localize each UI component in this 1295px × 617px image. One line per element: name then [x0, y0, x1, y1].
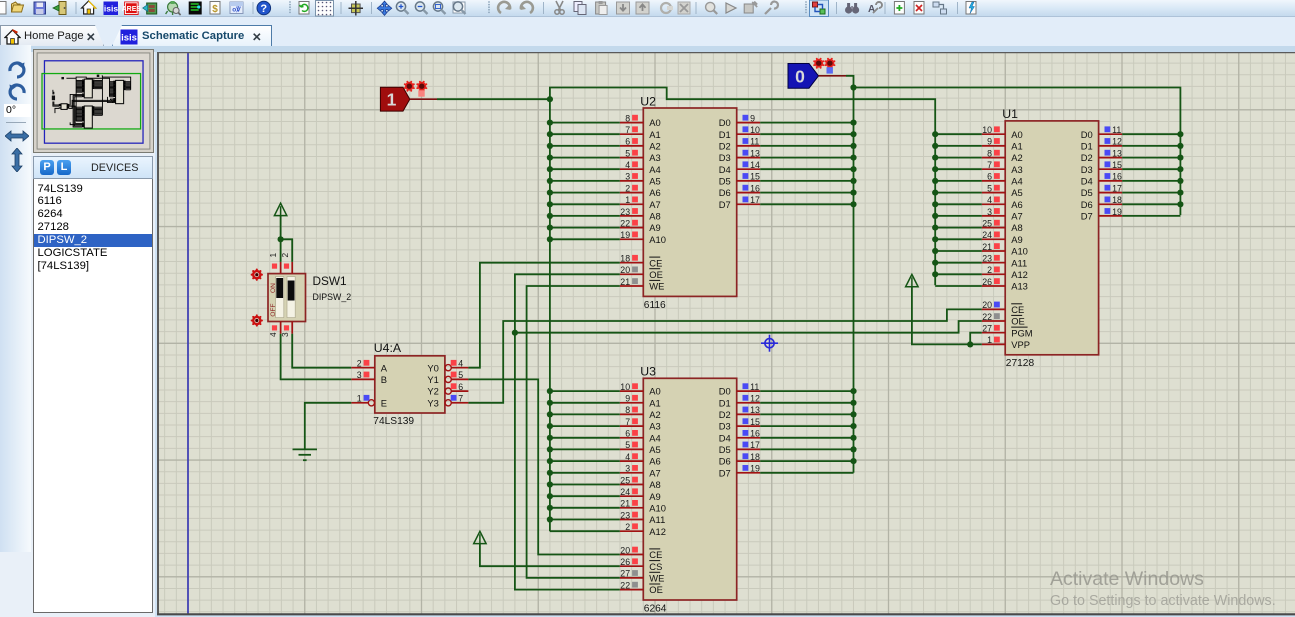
svg-text:D0: D0 — [719, 386, 731, 397]
svg-text:1: 1 — [625, 195, 630, 205]
svg-text:11: 11 — [1112, 125, 1121, 135]
svg-text:D3: D3 — [719, 421, 731, 432]
dip switch DSW1 (DIPSW_2) — [268, 253, 351, 338]
svg-text:D7: D7 — [1081, 211, 1093, 222]
wire U1 D6 — [1122, 203, 1180, 205]
wire U2 A6 — [550, 192, 620, 194]
svg-text:6264: 6264 — [644, 603, 667, 614]
junctions on U1 data bus — [1177, 131, 1183, 207]
junctions on U2/U3 address bus — [547, 120, 553, 523]
svg-text:2: 2 — [357, 359, 362, 369]
svg-text:A0: A0 — [649, 117, 660, 128]
wire U2-U3 data bus (vertical) — [853, 88, 855, 473]
svg-text:3: 3 — [625, 464, 630, 474]
watermark text — [1050, 568, 1276, 609]
svg-text:19: 19 — [750, 464, 760, 474]
wire U2 A0 — [550, 122, 620, 124]
svg-text:20: 20 — [620, 545, 630, 555]
wire U2 D1 — [760, 133, 853, 135]
svg-text:D7: D7 — [719, 467, 731, 478]
wire U4 Y1 to U3 CE — [468, 379, 619, 554]
svg-text:11: 11 — [750, 382, 759, 392]
wire U3 A6 — [550, 460, 620, 462]
svg-text:16: 16 — [1112, 172, 1122, 182]
svg-text:U2: U2 — [640, 94, 656, 108]
svg-text:A8: A8 — [649, 211, 660, 222]
ground symbol — [293, 449, 318, 460]
svg-text:4: 4 — [268, 332, 278, 337]
svg-text:E: E — [381, 397, 387, 408]
wire U1 D3 — [1122, 168, 1180, 170]
svg-text:WE: WE — [649, 573, 664, 584]
svg-text:13: 13 — [750, 148, 760, 158]
svg-text:2: 2 — [625, 522, 630, 532]
svg-text:VPP: VPP — [1011, 339, 1030, 350]
wire U1 A10 — [935, 250, 982, 252]
wire U4 E to ground — [305, 403, 352, 450]
svg-text:13: 13 — [750, 405, 760, 415]
svg-text:A3: A3 — [649, 421, 660, 432]
svg-text:A3: A3 — [649, 152, 660, 163]
wire U3 A12 — [550, 530, 620, 532]
wire U3 A9 — [550, 495, 620, 497]
wire U1 A9 — [935, 238, 982, 240]
svg-text:D0: D0 — [1081, 129, 1093, 140]
svg-text:25: 25 — [620, 475, 630, 485]
toggle buttons of logic state 1 — [404, 81, 428, 97]
wire U2 WE to U3 WE — [527, 286, 620, 578]
wire U2 A3 — [550, 157, 620, 159]
svg-text:U1: U1 — [1002, 107, 1018, 121]
svg-text:A5: A5 — [649, 444, 660, 455]
svg-text:10: 10 — [982, 125, 992, 135]
svg-text:4: 4 — [987, 195, 992, 205]
svg-text:20: 20 — [982, 300, 992, 310]
svg-text:27: 27 — [620, 569, 630, 579]
svg-text:15: 15 — [750, 172, 760, 182]
wire U2 A2 — [550, 145, 620, 147]
svg-text:12: 12 — [1112, 137, 1122, 147]
svg-text:5: 5 — [458, 370, 463, 380]
wire U3 D0 — [760, 390, 853, 392]
svg-text:A4: A4 — [1011, 176, 1022, 187]
svg-text:D1: D1 — [719, 129, 731, 140]
svg-text:D3: D3 — [719, 152, 731, 163]
svg-text:8: 8 — [625, 113, 630, 123]
svg-text:11: 11 — [750, 137, 759, 147]
svg-text:o℣: o℣ — [232, 5, 241, 14]
wire logic-1 to U2 address bus — [437, 98, 550, 100]
svg-text:OFF: OFF — [270, 303, 277, 316]
wire U3 A4 — [550, 437, 620, 439]
svg-text:A13: A13 — [1011, 281, 1028, 292]
wire U1 A6 — [935, 203, 982, 205]
IC U4:A (74LS139) — [351, 341, 468, 427]
logic state terminal "0" — [788, 64, 819, 89]
svg-text:A8: A8 — [649, 479, 660, 490]
svg-text:7: 7 — [625, 417, 630, 427]
svg-text:7: 7 — [458, 394, 463, 404]
svg-text:15: 15 — [1112, 160, 1122, 170]
svg-text:A12: A12 — [649, 526, 666, 537]
svg-text:Y0: Y0 — [427, 362, 438, 373]
wire U1 A7 — [935, 215, 982, 217]
wire U1 D1 — [1122, 145, 1180, 147]
svg-text:0: 0 — [795, 66, 805, 86]
svg-text:19: 19 — [1112, 207, 1122, 217]
svg-text:A0: A0 — [1011, 129, 1022, 140]
svg-text:5: 5 — [625, 148, 630, 158]
svg-text:4: 4 — [458, 359, 463, 369]
svg-text:A5: A5 — [649, 176, 660, 187]
svg-text:A1: A1 — [1011, 141, 1022, 152]
svg-text:27128: 27128 — [1006, 358, 1035, 369]
svg-text:OE: OE — [1011, 316, 1025, 327]
wire DSW1 pin4 to U4 B — [281, 334, 352, 380]
origin marker (red) bottom-left of DSW1 — [251, 314, 263, 326]
svg-text:DIPSW_2: DIPSW_2 — [313, 292, 352, 302]
svg-text:21: 21 — [620, 499, 630, 509]
cursor crosshair — [761, 335, 778, 352]
svg-text:18: 18 — [620, 254, 630, 264]
svg-text:6: 6 — [625, 137, 630, 147]
svg-text:9: 9 — [987, 137, 992, 147]
svg-text:7: 7 — [625, 125, 630, 135]
wire U1 A1 — [935, 145, 982, 147]
svg-text:A6: A6 — [1011, 199, 1022, 210]
svg-text:3: 3 — [357, 370, 362, 380]
wire U2 A8 — [550, 215, 620, 217]
svg-text:D1: D1 — [719, 397, 731, 408]
svg-text:A10: A10 — [649, 502, 666, 513]
svg-text:D5: D5 — [719, 176, 731, 187]
wire U2 A7 — [550, 203, 620, 205]
wire logic-0 to data bus — [846, 76, 854, 88]
wire U1 A0 — [935, 133, 982, 135]
svg-text:6116: 6116 — [644, 300, 666, 311]
wire U3 CS to input terminal — [480, 544, 620, 567]
svg-text:6: 6 — [458, 382, 463, 392]
IC U2 (6116) — [620, 94, 760, 310]
wire U2 OE / U1 OE / U3 OE net — [515, 274, 620, 589]
svg-text:21: 21 — [982, 242, 992, 252]
logic state terminal "1" — [380, 87, 409, 111]
wire U4 Y3 to U1 CE — [468, 309, 981, 402]
svg-text:22: 22 — [982, 312, 992, 322]
svg-text:D2: D2 — [719, 141, 731, 152]
wire U1 A8 — [935, 227, 982, 229]
svg-text:?: ? — [260, 3, 267, 15]
svg-text:Y2: Y2 — [427, 386, 438, 397]
svg-text:A12: A12 — [1011, 269, 1028, 280]
wire U3 D7 — [760, 472, 853, 474]
svg-text:OE: OE — [649, 269, 663, 280]
svg-text:D6: D6 — [719, 187, 731, 198]
wire U2 D0 — [760, 122, 853, 124]
svg-text:10: 10 — [620, 382, 630, 392]
input terminal (up arrow) U1 VPP — [906, 274, 919, 286]
svg-text:17: 17 — [750, 195, 760, 205]
wire U3 A1 — [550, 402, 620, 404]
svg-text:18: 18 — [1112, 195, 1122, 205]
wire DSW1 terminal to switch pins — [280, 216, 282, 262]
wire U3 A0 — [550, 390, 620, 392]
wire data bus top to U1 data bus — [854, 88, 1181, 216]
wire U1 D5 — [1122, 192, 1180, 194]
svg-text:23: 23 — [620, 510, 630, 520]
svg-text:5: 5 — [625, 440, 630, 450]
svg-text:A6: A6 — [649, 187, 660, 198]
svg-text:D2: D2 — [719, 409, 731, 420]
wire U3 D2 — [760, 413, 853, 415]
svg-text:A6: A6 — [649, 456, 660, 467]
wire logic-1 terminal stub (red) — [410, 98, 437, 100]
svg-text:isis: isis — [104, 4, 118, 14]
svg-text:A1: A1 — [649, 129, 660, 140]
wire U1 A2 — [935, 157, 982, 159]
svg-text:14: 14 — [750, 160, 760, 170]
svg-text:9: 9 — [625, 394, 630, 404]
svg-text:6: 6 — [987, 172, 992, 182]
svg-text:B: B — [381, 374, 387, 385]
svg-text:D3: D3 — [1081, 164, 1093, 175]
svg-text:D6: D6 — [719, 456, 731, 467]
svg-text:21: 21 — [620, 277, 630, 287]
svg-text:D6: D6 — [1081, 199, 1093, 210]
svg-text:U3: U3 — [640, 365, 656, 379]
svg-text:CE: CE — [649, 257, 662, 268]
svg-text:CE: CE — [1011, 304, 1024, 315]
svg-text:18: 18 — [750, 452, 760, 462]
wire U1 PGM branch — [970, 333, 982, 345]
svg-text:74LS139: 74LS139 — [373, 416, 414, 427]
svg-text:22: 22 — [620, 218, 630, 228]
svg-text:22: 22 — [620, 580, 630, 590]
svg-text:D1: D1 — [1081, 141, 1093, 152]
svg-text:A4: A4 — [649, 432, 660, 443]
wire U3 A2 — [550, 413, 620, 415]
wire U1 D2 — [1122, 157, 1180, 159]
wire U1 D7 — [1122, 215, 1180, 217]
wire U2 A5 — [550, 180, 620, 182]
svg-text:12: 12 — [750, 394, 760, 404]
svg-text:Activate Windows: Activate Windows — [1050, 568, 1204, 590]
svg-text:27: 27 — [982, 324, 992, 334]
svg-text:A: A — [381, 362, 388, 373]
svg-text:A9: A9 — [1011, 234, 1022, 245]
svg-text:23: 23 — [620, 207, 630, 217]
svg-text:9: 9 — [750, 113, 755, 123]
svg-text:A2: A2 — [649, 141, 660, 152]
svg-text:8: 8 — [987, 148, 992, 158]
wire U1 A3 — [935, 168, 982, 170]
svg-text:A5: A5 — [1011, 187, 1022, 198]
svg-text:8: 8 — [625, 405, 630, 415]
wire U3 D4 — [760, 437, 853, 439]
wire U3 D3 — [760, 425, 853, 427]
svg-text:D4: D4 — [1081, 176, 1093, 187]
wire U1 A12 — [935, 273, 982, 275]
wire U1 OE branch — [515, 321, 982, 333]
junction OE net to U1 OE — [512, 330, 518, 336]
wire DSW1 pin3 to U4 A — [292, 334, 351, 368]
svg-text:A11: A11 — [1011, 257, 1027, 268]
wire logic-1 hop over U2 to U1 address bus — [550, 88, 935, 286]
svg-text:7: 7 — [987, 160, 992, 170]
wire logic-0 terminal stub (red) — [819, 75, 847, 77]
svg-text:D5: D5 — [719, 444, 731, 455]
svg-text:A9: A9 — [649, 222, 660, 233]
svg-text:A4: A4 — [649, 164, 660, 175]
svg-text:D4: D4 — [719, 164, 731, 175]
wire U3 A8 — [550, 484, 620, 486]
svg-text:4: 4 — [625, 452, 630, 462]
svg-text:1: 1 — [268, 253, 278, 258]
svg-text:DSW1: DSW1 — [313, 274, 347, 288]
IC U1 (27128) — [982, 107, 1122, 369]
svg-text:15: 15 — [750, 417, 760, 427]
svg-text:OE: OE — [649, 584, 663, 595]
wire U1 A13 — [935, 285, 982, 287]
svg-text:A10: A10 — [649, 234, 666, 245]
svg-text:26: 26 — [620, 557, 630, 567]
svg-text:A8: A8 — [1011, 222, 1022, 233]
wire U3 A3 — [550, 425, 620, 427]
svg-text:26: 26 — [982, 277, 992, 287]
wire U1 D4 — [1122, 180, 1180, 182]
junctions on U2/U3 data bus — [850, 120, 856, 465]
svg-text:19: 19 — [620, 230, 630, 240]
svg-text:A1: A1 — [649, 397, 660, 408]
input terminal (up arrow) U3 CS — [474, 531, 486, 543]
wire U1 A11 — [935, 262, 982, 264]
wire U1 D0 — [1122, 133, 1180, 135]
svg-text:PGM: PGM — [1011, 327, 1033, 338]
wire U2 D3 — [760, 157, 853, 159]
svg-text:A10: A10 — [1011, 246, 1028, 257]
sheet border (blue) — [187, 53, 189, 614]
wire DSW1 pin2 branch — [281, 239, 293, 262]
svg-text:20: 20 — [620, 265, 630, 275]
wire U2 D5 — [760, 180, 853, 182]
svg-text:24: 24 — [620, 487, 630, 497]
svg-text:ARES: ARES — [122, 6, 142, 13]
junction DSW1 pins 1-2 — [278, 236, 284, 242]
svg-text:D4: D4 — [719, 432, 731, 443]
wire U2 A10 — [550, 238, 620, 240]
origin marker (red) top-left of DSW1 — [251, 269, 263, 281]
svg-text:6: 6 — [625, 429, 630, 439]
svg-text:25: 25 — [982, 218, 992, 228]
svg-text:A7: A7 — [649, 467, 660, 478]
svg-text:A11: A11 — [649, 514, 665, 525]
svg-text:CS: CS — [649, 561, 662, 572]
svg-text:10: 10 — [750, 125, 760, 135]
svg-text:D2: D2 — [1081, 152, 1093, 163]
svg-text:Y1: Y1 — [427, 374, 438, 385]
svg-text:A9: A9 — [649, 491, 660, 502]
junction PGM/VPP — [967, 341, 973, 347]
svg-text:U4:A: U4:A — [374, 341, 402, 355]
svg-text:isis: isis — [121, 32, 137, 43]
wire U3 D5 — [760, 448, 853, 450]
junctions on U1 address bus — [932, 131, 938, 277]
svg-text:17: 17 — [750, 440, 760, 450]
wire U3 A11 — [550, 519, 620, 521]
wire U2 D2 — [760, 145, 853, 147]
IC U3 (6264) — [620, 365, 760, 615]
svg-text:A3: A3 — [1011, 164, 1022, 175]
svg-text:1: 1 — [387, 90, 397, 110]
svg-text:2: 2 — [625, 183, 630, 193]
svg-text:A: A — [868, 4, 875, 15]
svg-text:A7: A7 — [649, 199, 660, 210]
svg-text:Go to Settings to activate Win: Go to Settings to activate Windows. — [1050, 593, 1276, 609]
wire U3 A7 — [550, 472, 620, 474]
svg-text:1: 1 — [357, 394, 362, 404]
toggle buttons of logic state 0 — [813, 58, 835, 74]
svg-text:5: 5 — [987, 183, 992, 193]
junction logic-0 / data bus — [850, 84, 856, 90]
wire U1 VPP to input terminal — [912, 287, 982, 345]
svg-text:3: 3 — [987, 207, 992, 217]
wire U3 A10 — [550, 507, 620, 509]
svg-text:16: 16 — [750, 183, 760, 193]
svg-text:1: 1 — [987, 335, 992, 345]
wire U2 D7 — [760, 203, 853, 205]
wire U2-U3 address bus (vertical) — [549, 99, 551, 531]
wire U3 D6 — [760, 460, 853, 462]
wire U2 A4 — [550, 168, 620, 170]
svg-text:13: 13 — [1112, 148, 1122, 158]
svg-text:17: 17 — [1112, 183, 1122, 193]
input terminal (up arrow) DSW1 common — [274, 203, 286, 215]
wire U2 D6 — [760, 192, 853, 194]
wire U4 Y0 to U2 CE — [468, 263, 619, 368]
wire U1 A4 — [935, 180, 982, 182]
junction logic-1 / address bus — [547, 96, 553, 102]
wire U2 D4 — [760, 168, 853, 170]
svg-text:23: 23 — [982, 254, 992, 264]
svg-text:WE: WE — [649, 281, 664, 292]
svg-text:A2: A2 — [1011, 152, 1022, 163]
wire U1 A5 — [935, 192, 982, 194]
svg-text:3: 3 — [625, 172, 630, 182]
wire U3 A5 — [550, 448, 620, 450]
svg-text:D0: D0 — [719, 117, 731, 128]
wire U2 A1 — [550, 133, 620, 135]
svg-text:Y3: Y3 — [427, 397, 438, 408]
svg-text:$: $ — [212, 4, 218, 15]
svg-text:24: 24 — [982, 230, 992, 240]
svg-text:2: 2 — [987, 265, 992, 275]
svg-text:A2: A2 — [649, 409, 660, 420]
svg-text:A0: A0 — [649, 386, 660, 397]
svg-text:A7: A7 — [1011, 211, 1022, 222]
wire U2 A9 — [550, 227, 620, 229]
svg-text:CE: CE — [649, 549, 662, 560]
wire U3 D1 — [760, 402, 853, 404]
svg-text:4: 4 — [625, 160, 630, 170]
svg-text:D7: D7 — [719, 199, 731, 210]
svg-text:ON: ON — [270, 283, 277, 293]
svg-text:D5: D5 — [1081, 187, 1093, 198]
svg-text:16: 16 — [750, 429, 760, 439]
